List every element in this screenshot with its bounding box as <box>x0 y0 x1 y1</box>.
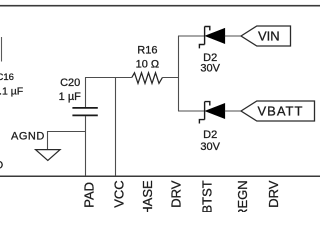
svg-text:C20: C20 <box>60 77 80 89</box>
wire to lower diode D2 <box>178 110 205 112</box>
svg-text:PAD: PAD <box>82 182 97 208</box>
node VCCJ: main horizontal wire C20 to R16 <box>85 77 132 79</box>
capacitor C20 bottom lead / wire to PAD pin <box>85 116 87 176</box>
top border line <box>0 5 320 7</box>
diode D2 (lower, Schottky 30V) <box>199 102 241 124</box>
wire to upper diode D2 <box>178 35 205 37</box>
svg-text:0.1 µF: 0.1 µF <box>0 85 23 97</box>
net flag VIN <box>241 26 291 46</box>
svg-text:10 Ω: 10 Ω <box>136 59 160 71</box>
net flag VBATT <box>241 101 315 121</box>
ground AGND symbol <box>36 150 61 161</box>
capacitor C16 lead (cut off at left edge) <box>1 37 3 62</box>
svg-text:C16: C16 <box>0 72 14 83</box>
svg-text:DRV: DRV <box>266 180 281 208</box>
svg-text:R16: R16 <box>137 45 157 57</box>
diode D2 (upper, Schottky 30V) <box>199 27 241 49</box>
svg-text:D: D <box>0 160 3 172</box>
svg-text:PHASE: PHASE <box>140 180 155 212</box>
resistor R16 <box>132 73 163 84</box>
svg-text:30V: 30V <box>200 63 220 75</box>
wire R16 right lead <box>162 77 179 79</box>
svg-text:VIN: VIN <box>258 28 280 43</box>
svg-text:BTST: BTST <box>200 180 215 212</box>
svg-text:REGN: REGN <box>235 180 250 212</box>
svg-text:AGND: AGND <box>11 131 45 143</box>
capacitor C20 top lead <box>85 78 87 108</box>
svg-text:VCC: VCC <box>111 180 126 207</box>
wire AGND to C20 bottom <box>48 132 87 150</box>
wire vertical bus joining both diodes and R16 <box>178 36 180 111</box>
IC box top edge <box>0 176 320 178</box>
capacitor C20 <box>72 108 97 116</box>
svg-text:D2: D2 <box>203 129 217 141</box>
svg-text:DRV: DRV <box>168 180 183 208</box>
wire VCC drop to pin <box>115 78 117 176</box>
svg-text:VBATT: VBATT <box>258 103 304 118</box>
svg-text:1 µF: 1 µF <box>59 91 82 103</box>
svg-text:30V: 30V <box>200 141 220 153</box>
